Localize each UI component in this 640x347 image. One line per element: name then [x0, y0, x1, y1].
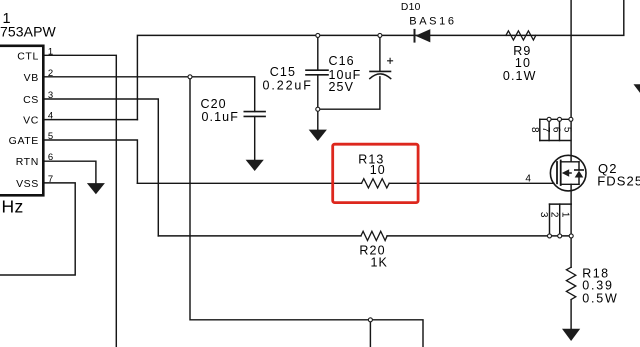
svg-text:Hz: Hz [2, 196, 24, 216]
svg-text:1: 1 [48, 46, 53, 57]
svg-text:10: 10 [370, 163, 386, 177]
svg-text:0.1uF: 0.1uF [202, 110, 239, 124]
svg-text:C15: C15 [270, 65, 296, 79]
svg-text:4: 4 [48, 111, 53, 122]
svg-text:D10: D10 [401, 2, 421, 13]
svg-text:RTN: RTN [16, 156, 39, 168]
svg-text:1K: 1K [371, 256, 389, 270]
svg-text:C16: C16 [329, 54, 355, 68]
svg-text:1: 1 [559, 212, 570, 218]
svg-text:3: 3 [538, 212, 549, 218]
svg-text:VB: VB [24, 72, 39, 84]
svg-text:5: 5 [48, 131, 53, 142]
svg-text:0.1W: 0.1W [503, 69, 537, 83]
svg-text:8: 8 [529, 127, 540, 133]
svg-text:BAS16: BAS16 [409, 15, 456, 27]
svg-text:0.5W: 0.5W [582, 291, 618, 305]
svg-text:2: 2 [549, 212, 560, 218]
svg-text:7: 7 [540, 127, 551, 133]
svg-text:3: 3 [48, 90, 53, 101]
svg-text:VSS: VSS [16, 178, 39, 190]
svg-text:5: 5 [561, 127, 572, 133]
svg-text:0.22uF: 0.22uF [263, 79, 313, 93]
svg-text:FDS2582: FDS2582 [597, 174, 640, 189]
svg-text:2: 2 [48, 68, 53, 79]
svg-text:10: 10 [515, 56, 531, 70]
svg-text:6: 6 [48, 152, 53, 163]
svg-text:CTL: CTL [17, 50, 39, 62]
svg-text:6: 6 [551, 127, 562, 133]
svg-text:753APW: 753APW [0, 24, 57, 40]
svg-text:VC: VC [23, 115, 39, 127]
svg-text:25V: 25V [329, 80, 355, 94]
svg-text:7: 7 [48, 174, 53, 185]
svg-text:GATE: GATE [9, 135, 39, 147]
svg-text:CS: CS [23, 94, 39, 106]
svg-text:C20: C20 [201, 97, 227, 111]
svg-text:4: 4 [525, 173, 531, 184]
